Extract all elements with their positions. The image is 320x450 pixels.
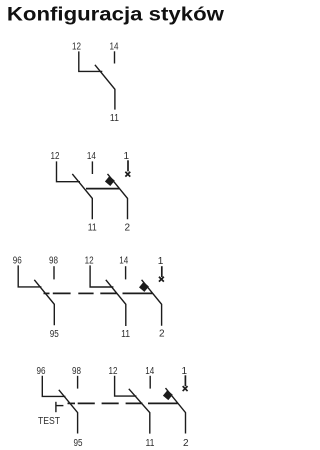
positive-opening diamond on lever 1-2 (105, 177, 114, 186)
svg-text:12: 12 (51, 151, 60, 162)
svg-text:TEST: TEST (38, 416, 61, 427)
svg-text:14: 14 (119, 256, 128, 267)
wire from terminal 12 (57, 161, 81, 181)
svg-text:2: 2 (183, 438, 189, 449)
contact lever 1-2 (166, 388, 186, 433)
actuator plunger line 1 (127, 160, 129, 171)
terminal 98 stub wire (53, 266, 55, 279)
terminal 14 stub wire (125, 266, 127, 279)
mechanical link between levers (86, 188, 119, 190)
svg-text:11: 11 (146, 438, 155, 449)
svg-text:2: 2 (159, 329, 165, 340)
terminal 14 stub wire (149, 376, 151, 389)
contact lever 11-12 (106, 280, 126, 326)
svg-text:98: 98 (72, 366, 81, 377)
wire from terminal 96 (42, 376, 65, 397)
actuator plunger line 1 (184, 375, 186, 386)
svg-text:98: 98 (49, 256, 58, 267)
svg-text:2: 2 (125, 223, 131, 234)
wire from terminal 96 (18, 265, 41, 287)
wire from terminal 12 (115, 376, 137, 396)
positive-opening diamond on lever 1-2 (139, 282, 148, 291)
svg-text:14: 14 (110, 42, 119, 53)
svg-text:12: 12 (109, 366, 118, 377)
svg-text:11: 11 (121, 329, 130, 340)
contact lever 11-12 (129, 389, 150, 434)
svg-text:1: 1 (124, 151, 130, 162)
svg-text:96: 96 (37, 366, 46, 377)
manual actuation X symbol (125, 172, 130, 177)
contact lever 11-12 (95, 65, 115, 110)
contact lever 11-12 (72, 174, 92, 219)
manual actuation X symbol (159, 277, 164, 282)
dashed mechanical link between levers (44, 292, 50, 294)
svg-text:1: 1 (182, 366, 188, 377)
terminal 98 stub wire (77, 376, 79, 389)
contact lever 95-96 (59, 390, 78, 434)
svg-text:95: 95 (74, 438, 83, 449)
manual actuation X symbol (183, 386, 188, 391)
dashed mechanical link between levers (68, 402, 76, 404)
wire from terminal 12 (90, 265, 113, 287)
terminal 14 stub wire (91, 161, 93, 174)
contact lever 95-96 (34, 280, 54, 325)
wire from terminal 12 (79, 51, 103, 71)
terminal 14 stub wire (114, 51, 116, 63)
svg-text:11: 11 (88, 223, 97, 234)
svg-text:11: 11 (110, 113, 119, 124)
contact lever 1-2 (108, 174, 128, 219)
svg-text:12: 12 (72, 42, 81, 53)
positive-opening diamond on lever 1-2 (163, 391, 172, 400)
contact lever 1-2 (142, 280, 162, 326)
svg-text:1: 1 (158, 256, 164, 267)
actuator plunger line 1 (161, 266, 163, 277)
svg-text:95: 95 (50, 329, 59, 340)
svg-text:Konfiguracja styków: Konfiguracja styków (7, 5, 224, 26)
TEST plunger symbol (55, 402, 57, 412)
svg-text:14: 14 (87, 151, 96, 162)
svg-text:96: 96 (13, 256, 22, 267)
svg-text:12: 12 (85, 256, 94, 267)
svg-text:14: 14 (145, 366, 154, 377)
